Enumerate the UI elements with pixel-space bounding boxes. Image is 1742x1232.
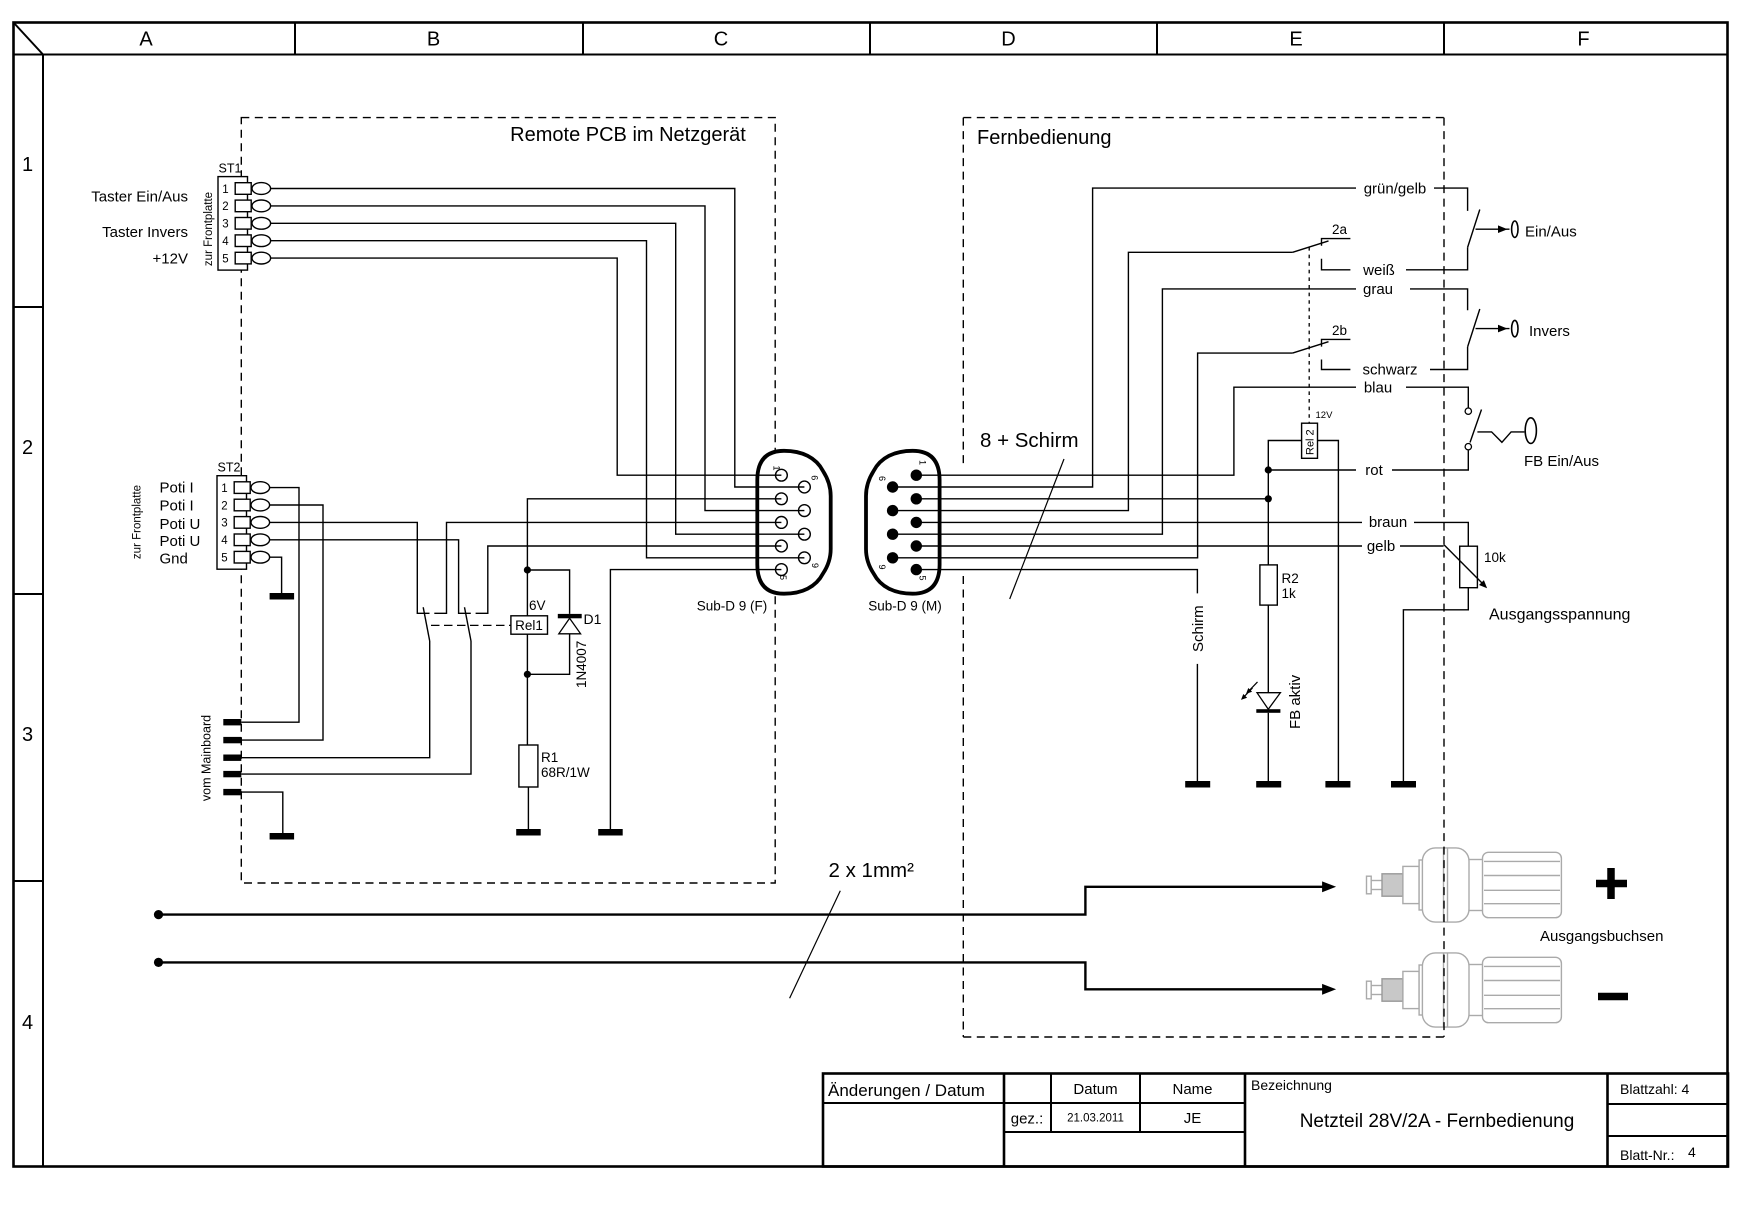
svg-text:R1: R1 <box>541 750 558 765</box>
arrow to + jack <box>1322 881 1336 892</box>
svg-text:2: 2 <box>22 437 33 459</box>
pin ST2.3 <box>234 517 250 529</box>
wire ST1.3 to X1.8 <box>261 223 804 534</box>
frame column labels A-F <box>139 29 1589 51</box>
svg-text:gelb: gelb <box>1367 538 1395 555</box>
svg-text:Bezeichnung: Bezeichnung <box>1251 1077 1332 1093</box>
svg-text:Gnd: Gnd <box>160 551 188 568</box>
svg-text:Netzteil 28V/2A - Fernbedienun: Netzteil 28V/2A - Fernbedienung <box>1300 1111 1575 1132</box>
X2 pins 6-9 (filled) <box>887 481 898 563</box>
svg-text:Änderungen / Datum: Änderungen / Datum <box>828 1081 985 1100</box>
svg-text:Ein/Aus: Ein/Aus <box>1525 224 1577 241</box>
svg-text:Taster Invers: Taster Invers <box>102 224 188 241</box>
svg-text:A: A <box>139 29 153 51</box>
minus symbol <box>1598 993 1628 1001</box>
wire Rel2 left lead to rot junction <box>1268 441 1301 471</box>
wire Rel1 coil vertical <box>526 570 528 745</box>
relay coil Rel 2 <box>1302 423 1318 458</box>
wire X2.3 braun line <box>940 521 1362 523</box>
diode D1 cathode bar <box>558 614 582 618</box>
svg-text:Poti I: Poti I <box>160 497 194 514</box>
svg-text:schwarz: schwarz <box>1362 362 1417 379</box>
wire ST2.2 to mainboard stub 2 <box>241 505 323 740</box>
svg-text:5: 5 <box>222 253 228 265</box>
dashed actuation line contacts to Rel1 <box>431 624 511 626</box>
node junction rot/Rel2 <box>1265 466 1272 473</box>
wire X2.4 gelb line <box>940 545 1362 547</box>
svg-text:12V: 12V <box>1316 410 1334 421</box>
ground symbol below stub 5 <box>270 833 295 840</box>
pin ST1.1 <box>235 183 251 195</box>
svg-text:5: 5 <box>917 576 927 581</box>
svg-text:F: F <box>1577 29 1589 51</box>
potentiometer wiper arrow <box>1444 544 1484 584</box>
pin ST1.5 <box>235 252 251 264</box>
wire weiss to Ein/Aus switch bottom <box>1406 247 1468 269</box>
wire junction down to X2.2 row junction and R2 <box>1267 470 1269 565</box>
connector ST2 <box>217 461 270 570</box>
wire contact S1 blade to mainboard stub 3 <box>241 641 429 758</box>
dotted actuation line 2a/2b to Rel2 <box>1308 247 1310 423</box>
wire ST1.5 (+12V) to X1.1 <box>261 258 781 475</box>
pin ST1.2 <box>235 200 251 212</box>
svg-text:6: 6 <box>809 475 819 480</box>
pin ST1.3 <box>235 218 251 230</box>
ground symbol below X1.5 wire <box>598 829 623 836</box>
svg-text:1: 1 <box>772 466 782 471</box>
svg-text:Datum: Datum <box>1073 1081 1117 1098</box>
svg-text:zur Frontplatte: zur Frontplatte <box>203 192 215 266</box>
arrow to - jack <box>1322 984 1336 995</box>
node junction R2/X2.2 <box>1265 495 1272 502</box>
contact S1 (Rel1 contact) output terminal to X1.3 <box>434 522 781 613</box>
Invers actuator arrow and button <box>1476 320 1519 336</box>
svg-text:2: 2 <box>221 500 227 512</box>
FB Ein/Aus actuator spring and button <box>1477 418 1536 444</box>
svg-text:Sub-D 9 (F): Sub-D 9 (F) <box>697 599 768 614</box>
dashed box: Remote PCB im Netzgeraet <box>241 118 775 883</box>
svg-text:Schirm: Schirm <box>1190 605 1207 652</box>
plus symbol <box>1596 868 1627 899</box>
svg-text:1: 1 <box>222 184 228 196</box>
X1 pin number labels <box>772 466 820 581</box>
ground symbol below poti <box>1391 781 1416 788</box>
wire contact S2 blade to mainboard stub 4 <box>241 641 471 774</box>
push button Ein/Aus blade <box>1468 210 1480 248</box>
wire Rel2 right lead to ground <box>1318 441 1339 782</box>
svg-text:D: D <box>1001 29 1015 51</box>
cable bundle slash <box>1010 459 1064 599</box>
ground symbol Schirm <box>1185 781 1210 788</box>
svg-text:Taster Ein/Aus: Taster Ein/Aus <box>91 189 188 206</box>
svg-text:gez.:: gez.: <box>1011 1111 1044 1128</box>
svg-text:blau: blau <box>1364 379 1392 396</box>
svg-text:JE: JE <box>1184 1110 1202 1127</box>
svg-text:4: 4 <box>222 236 229 248</box>
svg-text:4: 4 <box>221 535 228 547</box>
wire X1.5 to ground <box>610 570 781 829</box>
wire R1 to ground <box>527 787 529 829</box>
svg-text:D1: D1 <box>584 611 602 627</box>
svg-text:5: 5 <box>778 575 788 580</box>
svg-text:ST2: ST2 <box>218 461 241 475</box>
svg-text:E: E <box>1289 29 1302 51</box>
wire schwarz to Invers switch bottom <box>1430 347 1468 370</box>
svg-text:B: B <box>427 29 440 51</box>
node junction Rel1 bottom <box>524 671 531 678</box>
svg-text:FB Ein/Aus: FB Ein/Aus <box>1524 453 1599 470</box>
svg-text:9: 9 <box>877 565 887 570</box>
mainboard stub bars <box>223 719 241 795</box>
svg-text:FB aktiv: FB aktiv <box>1287 674 1304 729</box>
svg-text:rot: rot <box>1365 462 1383 479</box>
contact 2b top terminal <box>1322 339 1351 346</box>
Sub-D 9 (F) connector X1 body <box>757 451 830 594</box>
svg-text:Poti U: Poti U <box>160 516 201 533</box>
wire blau to FB switch top <box>1406 387 1468 407</box>
svg-text:2: 2 <box>222 201 228 213</box>
contact 2b bottom terminal to schwarz <box>1322 360 1351 370</box>
LED arrows <box>1241 682 1258 700</box>
contact S2 output terminal to X1.4 <box>476 546 782 613</box>
ground symbol at ST2.5 <box>270 593 295 600</box>
pin ST1.4 <box>235 235 251 247</box>
svg-text:1N4007: 1N4007 <box>574 641 589 688</box>
resistor R2 <box>1260 565 1277 605</box>
wire gruen/gelb to Ein/Aus switch top <box>1434 188 1468 211</box>
svg-text:Sub-D 9 (M): Sub-D 9 (M) <box>868 599 942 614</box>
output wire + <box>159 887 1326 915</box>
dashed box Fernbedienung right edge <box>1443 118 1445 1037</box>
connector ST1 <box>218 162 271 271</box>
wire X2.5 to Schirm ground <box>940 570 1197 594</box>
contact S2 blade <box>465 607 472 641</box>
svg-text:Rel1: Rel1 <box>515 618 543 633</box>
svg-text:C: C <box>714 29 728 51</box>
output jack - (Ausgangsbuchse) <box>1367 953 1562 1027</box>
svg-text:Blatt-Nr.:: Blatt-Nr.: <box>1620 1147 1674 1163</box>
svg-text:Ausgangsspannung: Ausgangsspannung <box>1489 607 1630 624</box>
svg-text:3: 3 <box>22 724 33 746</box>
X2 pins 1-5 (filled) <box>911 470 922 576</box>
wire poti bottom to ground <box>1403 588 1468 781</box>
pin ST2.5 <box>234 551 250 563</box>
svg-text:Ausgangsbuchsen: Ausgangsbuchsen <box>1540 928 1663 945</box>
wire rot to FB switch bottom <box>1392 450 1468 470</box>
svg-text:Poti I: Poti I <box>160 479 194 496</box>
push button Invers blade <box>1468 309 1480 347</box>
relay coil Rel1 <box>511 616 548 634</box>
pin ST2.2 <box>234 499 250 511</box>
svg-text:1: 1 <box>221 483 227 495</box>
wire mainboard stub 5 to ground <box>241 792 282 833</box>
ground symbol below Rel2 <box>1325 781 1350 788</box>
pin ST2.4 <box>234 534 250 546</box>
svg-text:2 x 1mm²: 2 x 1mm² <box>829 859 915 882</box>
wire X2.7 to contact 2a blade <box>940 252 1293 510</box>
svg-text:weiß: weiß <box>1362 262 1395 279</box>
wire ST1.1 to X1.6 <box>261 189 804 488</box>
wire X2.1 to blau line <box>940 387 1356 475</box>
svg-text:Remote PCB im Netzgerät: Remote PCB im Netzgerät <box>510 124 746 146</box>
svg-text:2a: 2a <box>1332 222 1348 237</box>
svg-text:9: 9 <box>810 563 820 568</box>
diode D1 triangle <box>559 618 581 634</box>
svg-text:grün/gelb: grün/gelb <box>1364 180 1427 197</box>
contact 2a blade <box>1293 241 1329 252</box>
ground symbol below R1 <box>516 829 541 836</box>
svg-text:4: 4 <box>22 1012 33 1034</box>
wire X2.6 to gruen/gelb line <box>940 188 1356 487</box>
svg-text:ST1: ST1 <box>219 162 242 176</box>
X1 pins 6-9 (open circles) <box>799 481 811 564</box>
svg-text:3: 3 <box>221 518 227 530</box>
contact S1 blade <box>423 607 430 641</box>
contact 2a top terminal <box>1322 239 1351 246</box>
contact 2b blade <box>1293 342 1329 353</box>
node output + <box>154 910 163 919</box>
dashed box: Fernbedienung <box>963 118 1445 1037</box>
X2 wires pins to cable <box>893 475 940 569</box>
wire ST1.2 to X1.7 <box>261 206 804 511</box>
wire rot line from junction <box>1268 469 1356 471</box>
svg-text:braun: braun <box>1369 514 1407 531</box>
node output - <box>154 958 163 967</box>
Ein/Aus actuator arrow and button <box>1476 221 1519 237</box>
svg-text:6: 6 <box>877 476 887 481</box>
X1 pins 1-5 (open circles) <box>776 469 788 575</box>
wire braun to poti top <box>1414 522 1468 546</box>
wire grau to Invers switch top <box>1410 289 1468 310</box>
svg-text:8 + Schirm: 8 + Schirm <box>980 429 1079 452</box>
svg-text:Poti U: Poti U <box>160 533 201 550</box>
svg-text:zur Frontplatte: zur Frontplatte <box>132 485 144 559</box>
output cable slash <box>790 891 841 999</box>
node junction Rel1 top <box>524 566 531 573</box>
potentiometer 10k body <box>1460 546 1478 588</box>
wire LED to ground <box>1267 713 1269 781</box>
wire R2 to LED <box>1267 605 1269 693</box>
Sub-D 9 (M) connector X2 body <box>866 451 940 594</box>
svg-text:1: 1 <box>917 460 927 465</box>
wire X2.9 to contact 2b blade <box>940 353 1293 558</box>
wire +12V net to X1.2 and Rel1 <box>527 499 781 570</box>
switch FB Ein/Aus blade <box>1470 410 1482 443</box>
svg-text:Name: Name <box>1172 1081 1212 1098</box>
svg-text:6V: 6V <box>529 598 546 613</box>
wire X2.2 row to junction <box>940 498 1268 500</box>
svg-text:68R/1W: 68R/1W <box>541 765 590 780</box>
resistor R1 <box>519 745 538 787</box>
svg-text:Fernbedienung: Fernbedienung <box>977 127 1112 149</box>
X2 pin number labels <box>877 460 927 581</box>
title block texts <box>828 1077 1696 1163</box>
frame row labels 1-4 <box>22 154 33 1034</box>
wire X2.8 to grau line <box>940 289 1356 534</box>
output jack + (Ausgangsbuchse) <box>1367 848 1562 922</box>
wire D1 anode to lower junction <box>527 634 569 675</box>
title block <box>823 1074 1728 1167</box>
svg-text:+12V: +12V <box>153 251 188 268</box>
svg-text:10k: 10k <box>1484 550 1506 565</box>
switch FB Ein/Aus terminals <box>1465 408 1471 414</box>
svg-text:vom Mainboard: vom Mainboard <box>200 715 214 801</box>
svg-text:Invers: Invers <box>1529 323 1570 340</box>
LED cathode bar <box>1256 709 1280 713</box>
wire ST2.4 to contact S2 terminal <box>261 540 471 614</box>
pin ST2.1 <box>234 482 250 494</box>
svg-text:5: 5 <box>221 553 227 565</box>
svg-text:1k: 1k <box>1282 586 1297 601</box>
LED FB aktiv triangle <box>1257 693 1280 710</box>
wire ST2.3 to contact S1 terminal <box>261 522 429 613</box>
svg-text:3: 3 <box>222 219 228 231</box>
wire ST2.1 to mainboard stub 1 <box>241 488 299 723</box>
output wire - <box>159 962 1326 989</box>
svg-text:Blattzahl: 4: Blattzahl: 4 <box>1620 1081 1689 1097</box>
svg-text:Rel 2: Rel 2 <box>1305 429 1317 455</box>
svg-text:1: 1 <box>22 154 33 176</box>
wire ST2.5 Gnd <box>261 557 281 593</box>
ground symbol below LED <box>1256 781 1281 788</box>
contact 2a bottom terminal to weiss <box>1322 259 1351 270</box>
svg-text:R2: R2 <box>1282 571 1299 586</box>
svg-text:grau: grau <box>1363 281 1393 298</box>
svg-text:2b: 2b <box>1332 323 1347 338</box>
wire ST1.4 to X1.9 <box>261 241 804 558</box>
wire junction to D1 cathode <box>527 570 569 614</box>
svg-text:4: 4 <box>1688 1144 1696 1160</box>
wire gelb to poti wiper <box>1400 545 1444 547</box>
svg-text:21.03.2011: 21.03.2011 <box>1067 1113 1124 1125</box>
